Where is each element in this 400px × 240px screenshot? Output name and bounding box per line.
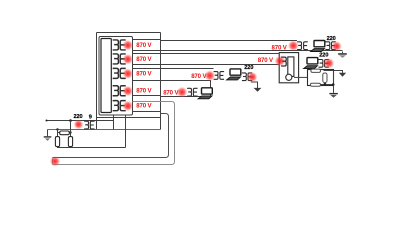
row1 LED glow right [331, 41, 341, 51]
row4 LED glow [177, 87, 188, 98]
wire box B right vertical to ground [333, 71, 335, 93]
row3 computer icon [227, 69, 241, 80]
row1 wire to ground [342, 52, 344, 54]
wire outer loop left [96, 33, 98, 130]
row3 LED glow left [204, 70, 215, 81]
chip pin row3 glow [123, 68, 134, 79]
label cell row2 bottom / wire row2 lower [133, 64, 279, 66]
wire resistor row [58, 130, 71, 137]
wire resistor bottoms [58, 146, 126, 149]
svg-text:870 V: 870 V [136, 56, 152, 63]
row4 connector right half [193, 88, 197, 96]
label cell row1 top [133, 39, 161, 41]
chip pin row4 glow [123, 86, 134, 97]
wire loop B to bottom LED [53, 114, 169, 158]
row2 resistor connector half [319, 60, 323, 68]
row1 resistor connector half [325, 42, 329, 50]
bottom LED stub [52, 158, 54, 165]
svg-text:870 V: 870 V [136, 42, 152, 49]
row1 LED connector half [332, 42, 336, 50]
LED pin9 glow [74, 120, 84, 130]
relay coil circle [286, 74, 292, 80]
svg-text:220: 220 [327, 36, 336, 42]
ground row1 [338, 53, 347, 58]
svg-text:9: 9 [89, 114, 92, 120]
wire junction down to resistor R3 [70, 121, 72, 137]
row2 LED connector half [325, 60, 329, 68]
chip pin connector row4 left [113, 86, 119, 96]
wire pin9 vertical to chip [113, 115, 115, 130]
wire outer box bottom [97, 117, 161, 119]
chip pin connector row5 left [113, 101, 119, 111]
node junction dot pin9 [69, 119, 72, 122]
motor box B [308, 70, 334, 86]
wire under box B [321, 84, 334, 86]
chip pin row1 glow [123, 40, 134, 51]
label cell row5 bottom [133, 111, 161, 113]
row4 loop wire [133, 81, 211, 97]
box B bottom pill [310, 83, 320, 86]
row2 LED glow left [275, 56, 286, 67]
node junction dot resistor top [56, 128, 58, 130]
row3 LED connector half [248, 73, 252, 81]
row2 inner rectangle [288, 57, 294, 77]
chip pin row5 glow [123, 101, 134, 112]
svg-text:870 V: 870 V [258, 57, 274, 64]
row1 connector left half [297, 42, 301, 50]
chip pin connector row2 left [113, 54, 119, 64]
row3 connector left half [214, 72, 218, 80]
row3 wire to arrow ground [251, 82, 258, 88]
wire loop C to bottom LED [53, 102, 175, 165]
row1 LED glow left [288, 40, 299, 51]
box B vertical pill resistor [323, 73, 327, 83]
row4 computer icon [198, 88, 212, 99]
chip pin row2 glow [123, 54, 134, 65]
arrow ground row3 [254, 88, 262, 92]
connector pin9 left half [84, 121, 88, 129]
chip pin connector row1 right [120, 40, 125, 50]
chip pin connector row1 left [113, 40, 119, 50]
resistor R3 vertical right [68, 137, 72, 147]
chip pin connector row3 right [120, 68, 125, 78]
svg-text:220: 220 [319, 53, 328, 59]
row3 resistor connector half [242, 73, 246, 81]
wire pin9 horizontal [47, 120, 114, 122]
label cell row2 top / wire row2 upper [133, 53, 279, 55]
wire vertical to mid box [125, 115, 127, 148]
label cell row1 bottom / wire row1 lower [133, 50, 343, 52]
ground bottom-left [44, 130, 52, 141]
row1 computer icon [311, 41, 325, 52]
box B top pill [311, 69, 321, 72]
chip pin connector row4 right [120, 86, 125, 96]
node dot pill lead [324, 83, 327, 86]
svg-text:870 V: 870 V [136, 88, 152, 95]
resistor R1 horizontal [60, 131, 70, 135]
row3 connector right half [220, 72, 224, 80]
row1 connector right half [304, 42, 308, 50]
resistor R2 vertical left [55, 137, 59, 147]
chip pin connector row2 right [120, 54, 125, 64]
svg-text:870 V: 870 V [272, 44, 288, 51]
node dot ground branch [332, 83, 335, 86]
wire row1 upper [161, 40, 298, 42]
row4 connector left half [187, 88, 191, 96]
svg-text:870 V: 870 V [136, 103, 152, 110]
svg-text:220: 220 [244, 65, 253, 71]
middle box [99, 37, 133, 116]
bottom LED glow [50, 156, 60, 166]
svg-text:870 V: 870 V [136, 70, 152, 77]
node junction dot resistor right [69, 131, 71, 133]
row3 LED glow right [247, 72, 257, 82]
relay box A [279, 53, 298, 83]
label cell row4 bottom [133, 95, 161, 97]
connector pin9 right half [90, 121, 94, 129]
wire box A to box B [294, 76, 308, 78]
IC chip body U1 [101, 39, 111, 113]
row2 computer icon [304, 58, 318, 69]
chip pin connector row3 left [113, 68, 119, 78]
arrow ground row2 [339, 73, 346, 77]
wire bottom bus [48, 129, 161, 131]
svg-text:220: 220 [74, 114, 83, 120]
chip pin connector row5 right [120, 101, 125, 111]
label cell row3 top / wire row3 upper [133, 68, 214, 70]
wire outer loop right [160, 33, 162, 130]
ground mid [329, 93, 337, 98]
wire outer loop top [97, 32, 161, 34]
row2 wire to arrow ground [324, 71, 343, 73]
row2 LED glow right [324, 58, 335, 69]
terminal dot left [46, 120, 48, 122]
row2 connector left half [281, 57, 286, 66]
